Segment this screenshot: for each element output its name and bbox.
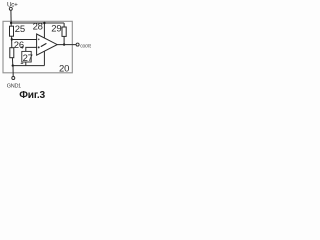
capacitor 27 minus sign <box>21 62 24 64</box>
svg-text:GND1: GND1 <box>7 83 21 89</box>
ground rail wire <box>13 65 45 67</box>
resistor 29 <box>62 27 66 36</box>
capacitor 27 plus sign <box>21 46 24 49</box>
svg-text:26: 26 <box>14 40 24 51</box>
svg-text:Uc+: Uc+ <box>7 1 18 8</box>
svg-text:соотв: соотв <box>80 43 91 49</box>
capacitor 27 body <box>22 51 31 62</box>
resistor 25 <box>10 26 14 36</box>
wire GND drop <box>12 66 14 77</box>
op-amp V- pin wire <box>43 51 45 65</box>
wire Uc+ rail <box>11 22 64 24</box>
wire output <box>57 44 76 46</box>
svg-text:25: 25 <box>15 24 25 35</box>
wire 26 to ground rail <box>11 58 13 66</box>
op-amp V+ pin wire <box>43 23 45 38</box>
wire resistor 29 to output <box>63 36 65 44</box>
terminal GND1 <box>12 77 15 80</box>
wire to non-inverting input <box>12 39 37 41</box>
capacitor 27 lower lead <box>25 62 27 66</box>
node V+ rail junction <box>43 22 45 24</box>
wire rail to resistor 29 <box>63 23 65 27</box>
block 20 outline <box>3 21 72 73</box>
node output junction <box>63 43 65 45</box>
svg-text:29: 29 <box>51 23 61 34</box>
svg-text:20: 20 <box>59 63 69 74</box>
op-amp input mark bottom <box>38 46 40 48</box>
op-amp input mark top <box>38 39 40 41</box>
wire 25 to divider node <box>11 36 13 48</box>
svg-text:Фиг.3: Фиг.3 <box>19 90 45 100</box>
svg-text:27: 27 <box>23 53 33 64</box>
node rail left junction <box>10 22 12 24</box>
wire Uc+ down to rail <box>10 10 12 26</box>
terminal output <box>76 43 79 46</box>
resistor 26 <box>10 48 14 58</box>
svg-text:28: 28 <box>33 22 43 33</box>
node ground rail junction <box>12 64 14 66</box>
wire to inverting input <box>26 47 37 51</box>
op-amp gain mark <box>41 43 47 46</box>
node divider junction <box>11 38 13 40</box>
op-amp 28 triangle <box>37 34 58 55</box>
